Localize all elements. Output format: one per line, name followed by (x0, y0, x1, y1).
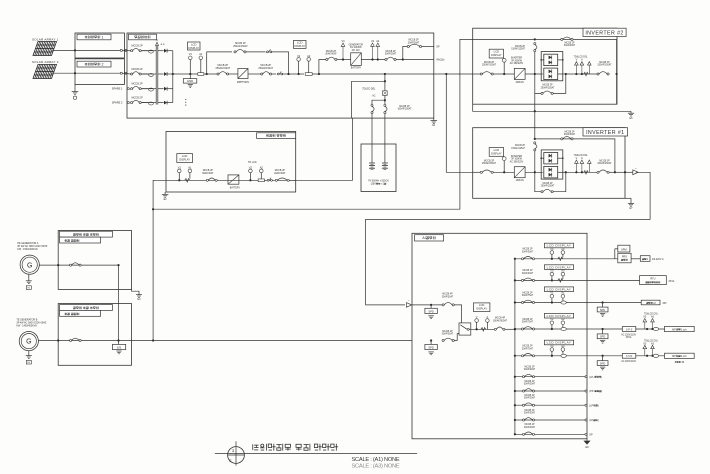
junction bus input (514, 328, 516, 330)
voltmeter V1 ac-r3 (550, 291, 554, 303)
diode D2 (164, 72, 167, 76)
junction G2 box-in (57, 339, 59, 341)
label MCCB ac-r1 (522, 249, 534, 254)
label MCCB 2P main-1 (216, 64, 231, 70)
wire conv-V4 (361, 59, 385, 61)
wire tap up (319, 60, 326, 75)
label MCCB 2P row 2 (132, 68, 143, 71)
svg-text:30AF/30AT: 30AF/30AT (524, 426, 536, 429)
junction inv1 out (614, 171, 616, 173)
ground E2 (charger) (162, 192, 169, 201)
junction bypass right (287, 73, 289, 75)
svg-text:30AF/30AT: 30AF/30AT (524, 368, 536, 371)
zigzag shunt ac-r1 (558, 257, 563, 260)
junction bus ac-r9 (514, 419, 516, 421)
breaker CB-chg2 (385, 57, 396, 60)
LCD display ac-r1 (544, 243, 573, 248)
UPS box ac-r4x (597, 329, 608, 339)
label MCCB ac-r3 (522, 292, 534, 297)
svg-text:SPARE 2: SPARE 2 (112, 101, 123, 105)
ammeter A1 (charger) (188, 165, 192, 178)
label MCCB inv1 byp (511, 145, 525, 150)
svg-text:LCD: LCD (182, 154, 187, 158)
solar array PV2 (33, 65, 57, 79)
SS switch box (112, 341, 125, 350)
genset panel 1 outline (58, 231, 131, 290)
DC bus bar (double line) (156, 46, 158, 105)
charger label (257, 133, 296, 139)
breaker CB-inv1-out (INVERTER #1) (597, 170, 609, 173)
svg-text:MCCB 2P: MCCB 2P (132, 96, 143, 99)
wire inv1 AC out run (366, 172, 650, 305)
arrester V3 ac-r5x (643, 342, 647, 356)
label MCCB module inv2 (INVERTER #2) (541, 85, 555, 90)
RTU box (640, 276, 667, 285)
label SP output (436, 46, 440, 49)
breaker CB-ac-r8 (522, 403, 534, 406)
svg-text:DC 12V: DC 12V (352, 50, 361, 52)
svg-text:KW : 1400/400KVA: KW : 1400/400KVA (16, 324, 37, 327)
junction V4 (371, 58, 373, 60)
wire row 1 diode to collector (167, 50, 173, 52)
svg-text:INVERTER #2: INVERTER #2 (585, 30, 623, 36)
meter inv2 (INVERTER #2) (502, 58, 506, 74)
solar array PV1 (33, 42, 57, 56)
label MCCB ac-r9 (524, 410, 536, 415)
label MCCB inv1 top (564, 132, 576, 137)
drawing title (253, 444, 338, 451)
svg-text:AC 220V/110V: AC 220V/110V (621, 333, 636, 336)
label AC relay (372, 94, 376, 97)
surge arrester A4 (376, 40, 380, 60)
svg-text:AC: AC (372, 94, 376, 97)
label MCCB ac-r4 (522, 319, 534, 324)
junction AC tap (152, 208, 154, 210)
label MCCB 2P chg-2 (385, 51, 397, 56)
ammeter A2 (PCS) (307, 54, 311, 73)
svg-text:RTU: RTU (650, 277, 655, 280)
svg-text:A: A (487, 315, 489, 319)
svg-text:A0: A0 (561, 247, 565, 251)
junction bus ac-r2 (514, 279, 516, 281)
wire AC branch ac-r1 (515, 258, 587, 260)
LCD display AC main (473, 303, 490, 312)
charger box (밧데리 충전기) outline (166, 132, 296, 193)
diode D4 (164, 101, 167, 105)
shunt A2 (305, 73, 312, 76)
junction G1G2 (117, 339, 119, 341)
svg-text:MCCB 2P: MCCB 2P (132, 68, 143, 71)
node PV1 on DC bus (74, 49, 76, 51)
wire module2 out inv1 (INVERTER #1) (558, 171, 566, 173)
terminal circles box1 output (120, 49, 127, 51)
output arrow inv1 (624, 166, 638, 174)
label MCCB 2P bypass (233, 42, 248, 48)
svg-text:1Φ-220V A: 1Φ-220V A (652, 258, 664, 261)
svg-text:A2: A2 (260, 165, 264, 169)
label inverter inv2 (INVERTER #2) (510, 58, 524, 66)
contactor bypass (266, 49, 271, 53)
svg-text:LCD: LCD (494, 148, 499, 152)
breaker CB-PV2 (131, 72, 149, 75)
svg-text:~: ~ (408, 299, 410, 303)
svg-text:INV(2)b: INV(2)b (436, 59, 445, 62)
label SPS ac-r5x (621, 360, 636, 363)
svg-text:SPD: SPD (428, 309, 434, 313)
wire ac-r4x out (587, 328, 665, 330)
diode module 2 inv2 (INVERTER #2) (544, 68, 558, 80)
svg-text:250AF/150AT: 250AF/150AT (258, 67, 273, 70)
svg-text:A1: A1 (188, 165, 192, 169)
meter inv1 (INVERTER #1) (502, 157, 506, 173)
svg-text:LCD: LCD (191, 42, 196, 46)
svg-text:40AF/30AT: 40AF/30AT (274, 172, 286, 175)
svg-text:250AF/150AT: 250AF/150AT (482, 64, 497, 67)
svg-text:MCCB 2P: MCCB 2P (275, 170, 286, 172)
wire PRS out (631, 258, 640, 260)
generator G1 (17, 242, 48, 274)
oval shunt ac-r4x (653, 327, 658, 330)
svg-text:A3: A3 (561, 344, 565, 348)
junction V1 (189, 73, 191, 75)
junction module out inv1 (INVERTER #1) (565, 171, 567, 173)
svg-text:BATTERY: BATTERY (230, 187, 241, 190)
ground E7 (inverter #1) (625, 198, 634, 210)
wire batt1 down (371, 114, 373, 163)
junction V AC (475, 328, 477, 330)
oval shunt ac-r5x (653, 354, 658, 357)
terminal circles box2 output (120, 72, 127, 74)
junction bus ac-r3 (514, 301, 516, 303)
battery BT1 (369, 163, 375, 170)
svg-text:AC 380/220V: AC 380/220V (510, 62, 524, 65)
ground E0 (junction boxes) (72, 92, 79, 100)
label MCCB ac-r10 (524, 424, 536, 429)
svg-text:~: ~ (635, 166, 637, 170)
terminal ac-r9 (585, 419, 587, 421)
wire row 4 bus to diode (158, 102, 164, 104)
surge arrester on DC bus (156, 40, 165, 45)
breaker CB-outA (407, 44, 421, 47)
ground SS (116, 351, 121, 354)
AC panel box (AC배전반) outline (412, 233, 587, 438)
svg-text:MCCB 3P: MCCB 3P (599, 62, 610, 64)
junction G1 down (117, 264, 119, 266)
terminal ac-r7 (585, 390, 587, 392)
label TD LCD charger (248, 161, 257, 164)
wire AC1 input (412, 304, 442, 306)
junction box 2 label (77, 61, 111, 67)
svg-text:30AF/30AT: 30AF/30AT (524, 397, 536, 400)
PCS label (129, 34, 157, 40)
wire module1 links inv1 (INVERTER #1) (540, 157, 563, 159)
wire inv2 AC drop (534, 52, 536, 74)
svg-text:200AF/150AT: 200AF/150AT (597, 64, 612, 67)
terminal ac-r6 (585, 376, 587, 378)
wire r2 to RTU (587, 279, 640, 281)
wire outA to edge (422, 46, 434, 48)
junction SPD1 (430, 304, 432, 306)
svg-text:DC 200KW: DC 200KW (350, 47, 362, 49)
label feeder ac-r6 (589, 376, 602, 379)
charger converter box (228, 175, 239, 184)
UPS box ac-r5x (597, 356, 608, 366)
wire inv1 AC drop (534, 151, 536, 172)
breaker CB-ac-r6 (522, 374, 534, 377)
CT row 3 (142, 88, 156, 91)
svg-text:V2: V2 (297, 54, 301, 58)
ground SPD1 (428, 316, 434, 319)
label load r2 (668, 280, 674, 283)
svg-text:MCCB 2P: MCCB 2P (408, 40, 419, 42)
svg-text:PV 600AH x 500CH: PV 600AH x 500CH (368, 180, 389, 183)
junction arr ac-r4x (646, 328, 648, 330)
svg-text:150AF/125AT: 150AF/125AT (511, 47, 525, 50)
label INV output (436, 59, 445, 62)
wire chg1-V3 (337, 59, 351, 61)
junction meter ac-r2 (551, 279, 553, 281)
svg-text:(LP-: (LP- (589, 404, 594, 407)
wire main2-contactor (272, 73, 277, 75)
label SPARE 2 (112, 101, 123, 105)
wire PV2 output (51, 72, 120, 74)
CT row 2 (142, 73, 156, 76)
svg-text:V2: V2 (249, 165, 253, 169)
svg-text:250AF/150AT: 250AF/150AT (541, 185, 555, 188)
wire relay down (384, 95, 386, 104)
junction meter ac-r5 (551, 355, 553, 357)
svg-text:SCALE : (A1) NONE: SCALE : (A1) NONE (352, 457, 400, 463)
collector wire (rows 1-4) (172, 51, 174, 103)
svg-text:250AF/150AT: 250AF/150AT (541, 86, 555, 89)
junction arrV inv2 (INVERTER #2) (575, 73, 577, 75)
wire G1 output (39, 264, 118, 266)
label MCCB ac-r8 (524, 395, 536, 400)
diode module frame inv2 (INVERTER #2) (541, 52, 563, 81)
breaker CB-batt2 (vertical) (384, 104, 387, 113)
wire AC1 to switch (454, 305, 461, 323)
svg-text:AC 380/220V: AC 380/220V (510, 161, 524, 164)
svg-text:1B: 1B (681, 362, 684, 364)
wire G1 to G2 bus (118, 265, 120, 340)
breaker CB-ac-r1 (521, 257, 534, 260)
wire AC branch ac-r7 (515, 390, 587, 392)
transfer switch ATS (459, 323, 471, 335)
junction battery tap (384, 73, 386, 75)
LCD display PCS-2 (294, 40, 307, 48)
svg-text:30AF/30AT: 30AF/30AT (524, 382, 536, 385)
junction inv1 DC tap (445, 73, 447, 75)
svg-text:SPD: SPD (600, 308, 605, 312)
junction bypass low inv2 (INVERTER #2) (0, 0, 1, 1)
svg-text:150AF/125AT: 150AF/125AT (511, 147, 525, 150)
label MCCB out inv2 (INVERTER #2) (597, 62, 612, 67)
inverter #2 box outline (473, 28, 617, 104)
junction ground run (534, 110, 536, 112)
svg-text:3KVA: 3KVA (626, 336, 632, 339)
oval shunt ac-r3 (561, 301, 566, 304)
svg-text:200AF/150AT: 200AF/150AT (597, 162, 612, 165)
inverter unit inv2 (INVERTER #2) (514, 68, 525, 79)
svg-text:V0: V0 (550, 269, 554, 273)
junction collector-main (172, 73, 174, 75)
svg-text:V3: V3 (550, 344, 554, 348)
svg-text:30AF/30AT: 30AF/30AT (408, 41, 420, 44)
breaker CB-inv1-byp (vertical) (534, 142, 537, 151)
ground E8 (AC panel) (583, 439, 590, 449)
svg-text:A1: A1 (561, 291, 565, 295)
svg-text:BATTERY: BATTERY (351, 67, 362, 70)
ammeter A0 ac-r1 (561, 247, 565, 258)
wire module bypass inv2 (INVERTER #2) (535, 74, 566, 93)
breaker CB-ac-r4 (521, 327, 534, 330)
junction rowB (402, 58, 404, 60)
breaker CB-inv2-out (INVERTER #2) (597, 72, 609, 75)
label load r1 (652, 258, 664, 261)
arrester A2 inv2 (INVERTER #2) (588, 62, 592, 74)
wire module1 links inv2 (INVERTER #2) (540, 59, 563, 61)
svg-text:INVERTER: INVERTER (511, 58, 523, 60)
zigzag shunt ac-r2 (558, 279, 563, 282)
junction bypass low inv1 (INVERTER #1) (0, 0, 1, 1)
svg-text:LCD: LCD (494, 50, 499, 54)
junction meter ac-r3 (551, 301, 553, 303)
wire batt2 down (384, 114, 386, 163)
svg-text:250AF/150AT: 250AF/150AT (216, 67, 231, 70)
wire G2 output (38, 340, 412, 342)
breaker CB-ac-r9 (522, 418, 534, 421)
SPD1 box (425, 305, 437, 314)
breaker CB-chgr1 (206, 178, 217, 181)
wire AC bypass feeder (153, 39, 473, 209)
wire PCS ground stub (433, 118, 435, 121)
svg-text:100KVA: 100KVA (516, 179, 525, 182)
zigzag shunt charger (185, 179, 190, 182)
LCD display ac-r4 (544, 313, 573, 318)
wire arr-brk inv2 (INVERTER #2) (566, 73, 597, 75)
GND box PCS (183, 74, 197, 87)
svg-text:1.sch: 1.sch (681, 328, 687, 331)
ground E3 (G1) (26, 281, 32, 290)
svg-text:GND: GND (187, 79, 193, 83)
junction UPS r3 (601, 301, 603, 303)
wire PCS output to inverters (434, 73, 473, 75)
junction box 1 (외부접속반 1) outline (75, 33, 124, 58)
arrester A3 ac-r4x (651, 316, 655, 331)
breaker CB-chgr2 (275, 178, 289, 181)
junction UPS ac-r4x (601, 328, 603, 330)
label MCCB 2P outA (408, 40, 420, 45)
label feeder ac-r10 (589, 433, 593, 436)
PCS box (전력조절기) outline (127, 33, 434, 118)
svg-text:TD&CO DEL: TD&CO DEL (362, 88, 376, 90)
wire row 2 diode to collector (167, 73, 173, 75)
terminal spare row 3 (127, 88, 129, 90)
junction bus ac-r1 (514, 258, 516, 260)
ground UPS ac-r4x (600, 340, 605, 343)
svg-text:A2: A2 (561, 317, 565, 321)
diode D3 (164, 87, 167, 91)
breaker CB-batt1 (vertical) (371, 104, 374, 113)
svg-text:30AF/30AT: 30AF/30AT (202, 172, 214, 175)
wire row 3 diode to collector (167, 88, 173, 90)
label feeder ac-r9 (589, 419, 599, 422)
arrester A1 inv1 (INVERTER #1) (580, 157, 584, 172)
ground E5 (G2) (26, 356, 32, 365)
breaker CB-main1 (217, 72, 229, 75)
battery BT2 (382, 163, 388, 170)
svg-text:PRS: PRS (622, 255, 627, 258)
SPS box ac-r4x (622, 327, 636, 332)
ammeter A3 ac-r5 (561, 344, 565, 355)
CT row 1 (142, 50, 156, 53)
zigzag inv1 (INVERTER #1) (584, 171, 589, 174)
LCD display charger (177, 154, 193, 163)
svg-text:TD LCD: TD LCD (248, 161, 257, 164)
junction G1 box-in (57, 264, 59, 266)
svg-text:30AF/75AT: 30AF/75AT (522, 294, 534, 297)
breaker CB-main2 (261, 72, 272, 75)
wire box1 to PCS row1 (122, 50, 131, 52)
label MCCB inv2 top (564, 42, 576, 47)
ground UPS r3 (600, 314, 605, 317)
wire bypass up-left (207, 52, 232, 74)
svg-text:30AF/30AT: 30AF/30AT (522, 272, 534, 275)
svg-text:1: 1 (101, 35, 103, 39)
junction A4 (377, 58, 379, 60)
label SPARE 1 (112, 87, 123, 91)
breaker CB-PV1 (131, 48, 149, 51)
junction module out inv2 (INVERTER #2) (565, 73, 567, 75)
junction bus ac-r8 (514, 404, 516, 406)
svg-text:30AF/30AT: 30AF/30AT (564, 133, 576, 136)
junction meter inv2 (INVERTER #2) (503, 73, 505, 75)
wire conv-main2 (248, 73, 261, 75)
junction charger V2 (249, 179, 251, 181)
label MCCB input inv2 (INVERTER #2) (482, 62, 497, 67)
svg-text:MCCB 2P: MCCB 2P (132, 83, 143, 86)
svg-text:DISPLAY: DISPLAY (491, 53, 502, 57)
junction meter ac-r1 (551, 258, 553, 260)
svg-text:INVERTER: INVERTER (511, 156, 523, 158)
genset panel 2 outline (58, 304, 131, 366)
AC panel label (415, 235, 444, 241)
svg-text:MPPT500V: MPPT500V (237, 81, 250, 84)
label TD LCD DSL inv1 (INVERTER #1) (574, 155, 589, 157)
ammeter A0 ac-r2 (561, 269, 565, 280)
svg-text:S P S: S P S (626, 328, 633, 331)
battery box outline (361, 144, 396, 192)
svg-text:MCCB 2P: MCCB 2P (484, 62, 495, 64)
junction bus ac-r7 (514, 390, 516, 392)
LCD display inv2 (INVERTER #2) (489, 49, 503, 58)
svg-text:A1: A1 (199, 52, 203, 56)
svg-text:300AF/300AT: 300AF/300AT (493, 319, 508, 322)
label MCCB batt (397, 106, 412, 111)
junction bypass left (206, 73, 208, 75)
junction arrV inv1 (INVERTER #1) (575, 171, 577, 173)
diode module 1 inv2 (INVERTER #2) (544, 54, 558, 65)
wire AC2 to switch (454, 334, 459, 341)
diode module 2 inv1 (INVERTER #1) (544, 166, 558, 178)
svg-text:DISPLAY: DISPLAY (476, 307, 487, 311)
svg-text:S/S: S/S (117, 346, 122, 350)
breaker CB-ac-r10 (522, 432, 534, 435)
label TD LCD DSL inv2 (INVERTER #2) (574, 57, 589, 59)
svg-text:S V R: S V R (626, 355, 633, 358)
svg-text:V: V (476, 315, 478, 319)
wire split to left leg (372, 100, 385, 104)
